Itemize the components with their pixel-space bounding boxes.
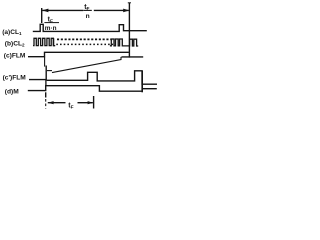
- svg-text:n: n: [86, 13, 90, 20]
- svg-text:m·n: m·n: [45, 25, 57, 32]
- svg-text:(c')FLM: (c')FLM: [3, 75, 27, 82]
- svg-text:(a)CL1: (a)CL1: [2, 29, 22, 36]
- svg-text:(b)CL2: (b)CL2: [5, 40, 25, 47]
- svg-text:(c)FLM: (c)FLM: [4, 52, 26, 59]
- svg-text:(d)M: (d)M: [5, 89, 19, 96]
